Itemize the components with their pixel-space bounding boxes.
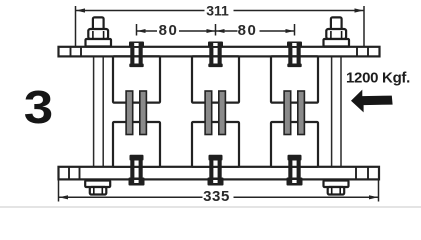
svg-text:80: 80	[238, 22, 258, 39]
mount 2 rubber strip left	[205, 91, 212, 135]
top bar tick 3	[356, 47, 358, 57]
bolt top-right stud	[331, 17, 342, 29]
screw hatch white specks	[134, 43, 296, 183]
mount 1 top screw nut	[129, 42, 303, 186]
mount 1 rubber strip left	[126, 91, 133, 135]
mount 3 top screw nut	[287, 42, 302, 48]
dim 80 arrows	[137, 29, 146, 33]
bolt bottom-left nut facets	[93, 187, 95, 194]
dim 335 arrow left	[59, 195, 68, 199]
bolt top-right nut	[326, 29, 346, 39]
dim 335 arrow right	[369, 195, 378, 199]
mount 1 upper block	[113, 56, 160, 102]
svg-text:335: 335	[203, 188, 230, 205]
bolt bottom-right nut	[328, 187, 345, 195]
mount 2 lower block	[192, 122, 239, 167]
bottom bar tick 2	[79, 167, 81, 180]
dim 80 lines	[137, 24, 295, 36]
dim 311 extension left	[75, 6, 77, 48]
svg-text:80: 80	[159, 22, 179, 39]
bolt bottom-left nut	[90, 187, 107, 195]
mount 2 top screw nut	[208, 42, 223, 48]
bottom bar tick 1	[68, 167, 70, 180]
mount 3 lower block	[271, 122, 318, 167]
dim 80 tick 3	[294, 24, 296, 36]
dim 311 line	[76, 6, 365, 48]
bolt top-left stud	[85, 17, 349, 194]
bolt top-right washer	[324, 39, 350, 47]
wire: right tie rod line 1	[331, 47, 333, 181]
dim 335 extension right	[378, 180, 380, 202]
bolt top-left nut	[88, 29, 108, 39]
mount 1 lower block	[113, 122, 160, 167]
wire: left tie rod line 2	[102, 47, 104, 181]
mount 3 upper block	[271, 56, 318, 102]
top bar tick 1	[70, 47, 72, 57]
dim 335 line	[59, 180, 379, 202]
top bar tick 2	[80, 47, 82, 57]
svg-text:311: 311	[206, 2, 229, 18]
mount 1 rubber strip right	[140, 91, 147, 135]
svg-text:1200 Kgf.: 1200 Kgf.	[346, 70, 410, 87]
force arrow	[351, 90, 393, 113]
dim 311 extension right	[363, 6, 365, 48]
mount 3 rubber strip left	[284, 91, 291, 135]
mount 3 rubber strip right	[298, 91, 305, 135]
top bar	[59, 47, 380, 57]
bolt bottom-right washer	[324, 181, 349, 188]
top bar tick 4	[367, 47, 369, 57]
bolt top-left nut facets	[93, 31, 342, 194]
bottom bar	[59, 167, 380, 180]
bolt top-right nut facets	[330, 31, 332, 39]
dim 80 tick 1	[136, 24, 138, 36]
svg-text:3: 3	[24, 81, 53, 133]
dim 311 arrow right	[355, 8, 364, 12]
mount 3 bottom screw	[288, 155, 302, 161]
mount 2 bottom screw	[209, 155, 223, 161]
bolt bottom-right nut facets	[331, 187, 333, 194]
dim 80 tick 2	[215, 24, 217, 36]
wire: right tie rod line 2	[340, 47, 342, 181]
mount 2 upper block	[192, 56, 239, 102]
bottom bar tick 3	[355, 167, 357, 180]
dim 335 extension left	[58, 180, 60, 202]
bolt bottom-left washer	[85, 181, 110, 188]
wire: left tie rod line 1	[94, 47, 341, 181]
bottom separator line	[0, 206, 421, 208]
bolt top-left washer	[86, 39, 112, 47]
mount 2 rubber strip right	[219, 91, 226, 135]
mount 1 bottom screw	[130, 155, 144, 161]
bottom bar tick 4	[367, 167, 369, 180]
dim 311 arrow left	[76, 8, 85, 12]
